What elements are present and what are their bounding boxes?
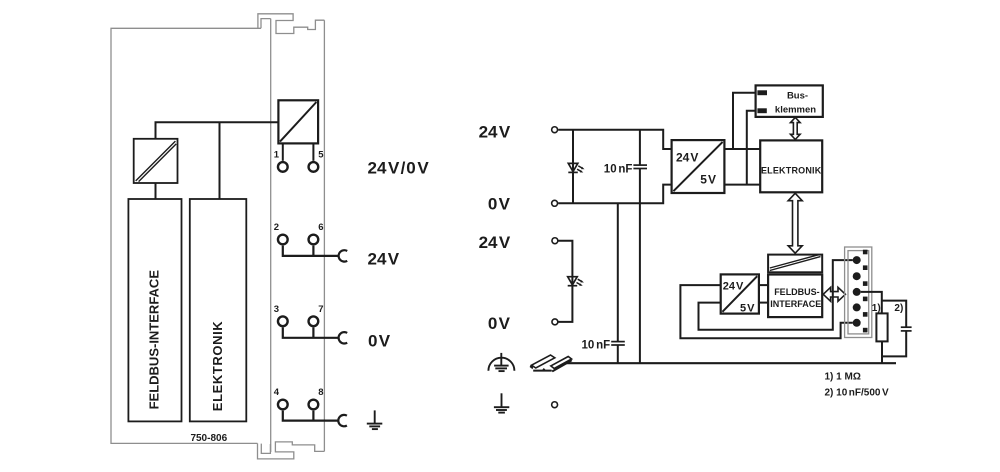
- svg-text:klemmen: klemmen: [775, 104, 816, 115]
- svg-text:1): 1): [872, 303, 881, 314]
- svg-text:24V: 24V: [723, 280, 744, 292]
- terminal circle 24V second: [552, 238, 558, 244]
- wire from isolation box top to bus wire: [156, 122, 279, 139]
- earth bus wire: [566, 362, 896, 364]
- clamp contact symbol 0V: [339, 332, 348, 343]
- capacitor C1 plates: [633, 165, 647, 168]
- module right edge (gray): [323, 20, 325, 451]
- svg-text:5V: 5V: [700, 173, 716, 187]
- terminal 5 stem wire: [312, 143, 314, 160]
- capacitor C2 branch wire upper: [617, 203, 619, 341]
- module bottom profile (gray): [258, 442, 325, 459]
- svg-text:0V: 0V: [368, 331, 391, 350]
- svg-text:7: 7: [318, 304, 323, 315]
- clamp contact symbol earth: [338, 415, 347, 426]
- svg-text:8: 8: [318, 387, 323, 398]
- fieldbus connector shell inner: [848, 251, 869, 334]
- data arrow busklemmen-elektronik: [791, 117, 801, 139]
- LED D1 branch wire: [572, 130, 574, 204]
- svg-text:0V: 0V: [488, 195, 511, 214]
- svg-text:3: 3: [274, 304, 279, 315]
- terminal 2 contact: [278, 235, 288, 245]
- terminal 1 stem wire: [282, 143, 284, 160]
- dc/dc converter 24V/5V fieldbus: [721, 274, 759, 314]
- module channel left edge (gray wire): [270, 19, 272, 452]
- svg-text:FELDBUS-: FELDBUS-: [774, 287, 820, 297]
- svg-text:2) 10nF/500V: 2) 10nF/500V: [825, 388, 889, 399]
- terminal circle 0V second: [552, 319, 558, 325]
- terminal 6 contact: [309, 235, 319, 245]
- fieldbus connector shell outer: [845, 247, 872, 338]
- wire loop inner pin1: [699, 260, 853, 330]
- svg-text:1) 1 MΩ: 1) 1 MΩ: [825, 372, 861, 383]
- capacitor C1 branch wire upper: [639, 130, 641, 165]
- wire pin3 to RC: [861, 292, 907, 327]
- isolation symbol (feldbus): [768, 255, 822, 273]
- svg-text:FELDBUS-INTERFACE: FELDBUS-INTERFACE: [147, 270, 162, 410]
- noiseless earth symbol: [488, 353, 514, 371]
- feldbus-interface box (schematic): [768, 275, 822, 318]
- LED D1: [568, 163, 584, 172]
- busklemmen box: [756, 85, 823, 117]
- wire 24V rail: [558, 130, 671, 149]
- capacitor C2 branch wire lower: [617, 345, 619, 363]
- svg-text:Bus-: Bus-: [787, 90, 808, 101]
- svg-text:0V: 0V: [488, 314, 511, 333]
- module bottom latch notch (gray): [261, 444, 270, 454]
- wire busklemmen supply right: [747, 111, 756, 185]
- resistor lower lead: [882, 331, 906, 363]
- dc/dc converter 24V/5V system: [672, 140, 725, 193]
- terminal 3 contact: [278, 316, 288, 326]
- svg-text:2): 2): [894, 303, 903, 314]
- svg-text:6: 6: [318, 222, 323, 233]
- clamp contact symbol 24V: [339, 250, 348, 261]
- capacitor C3 plates: [901, 327, 912, 331]
- capacitor C1 branch wire lower: [639, 169, 641, 364]
- wire terminals 2/6 to 24V clamp: [283, 246, 339, 256]
- wire from elektronik box top: [219, 122, 221, 199]
- svg-text:2: 2: [274, 222, 279, 233]
- wire converter to elektronik upper: [724, 148, 760, 150]
- svg-text:ELEKTRONIK: ELEKTRONIK: [210, 321, 225, 412]
- svg-text:24V: 24V: [479, 122, 511, 141]
- wire 0V rail: [558, 185, 671, 204]
- feldbus-interface box U1: [128, 199, 181, 421]
- LED D2: [568, 277, 584, 286]
- svg-text:INTERFACE: INTERFACE: [770, 299, 821, 309]
- isolation converter symbol (module): [134, 139, 178, 183]
- terminal 7 contact: [309, 316, 319, 326]
- wire from isolation box bottom to feldbus box: [155, 183, 157, 199]
- svg-text:ELEKTRONIK: ELEKTRONIK: [761, 166, 822, 176]
- LED D2 branch wire: [558, 241, 572, 322]
- connector socket pins: [853, 256, 861, 327]
- terminal 5 contact: [309, 162, 319, 172]
- protective earth symbol bottom: [494, 393, 509, 412]
- wire terminals 4/8 to earth clamp: [283, 411, 339, 421]
- wire busklemmen supply left: [733, 93, 756, 149]
- terminal 1 contact: [278, 162, 288, 172]
- power converter box (module strip): [278, 100, 318, 143]
- DIN rail contact symbol: [530, 355, 573, 372]
- elektronik box U2: [190, 199, 247, 421]
- svg-text:10nF: 10nF: [582, 340, 611, 352]
- svg-text:1: 1: [274, 150, 280, 161]
- svg-text:24V: 24V: [676, 150, 698, 164]
- data arrow elektronik-feldbus isolation: [788, 193, 802, 253]
- module top notch (gray): [261, 19, 271, 29]
- earth symbol (module): [367, 410, 383, 429]
- module body outline (left big rectangle, gray): [111, 28, 261, 443]
- wire terminals 3/7 to 0V clamp: [283, 327, 339, 337]
- module top profile (gray): [258, 14, 325, 34]
- capacitor C2 plates: [611, 342, 625, 345]
- wire loop outer pin5: [680, 285, 852, 338]
- elektronik box (schematic): [760, 140, 822, 192]
- terminal 4 contact: [278, 400, 288, 410]
- resistor R1 1Mohm: [876, 313, 887, 341]
- svg-text:24V: 24V: [479, 233, 511, 252]
- svg-text:24V: 24V: [368, 249, 400, 268]
- wire converter2 to feldbus upper: [759, 284, 768, 286]
- svg-text:5: 5: [318, 150, 324, 161]
- svg-text:10nF: 10nF: [604, 164, 633, 176]
- terminal circle bottom spare: [552, 402, 558, 408]
- wire converter to elektronik lower: [724, 184, 760, 186]
- svg-text:750-806: 750-806: [190, 433, 227, 444]
- data arrow feldbus-connector: [823, 287, 845, 301]
- terminal 8 contact: [309, 400, 319, 410]
- svg-text:5V: 5V: [740, 302, 755, 314]
- terminal circle 0V: [552, 200, 558, 206]
- terminal circle 24V: [552, 127, 558, 133]
- connector side pins: [863, 250, 868, 333]
- svg-text:4: 4: [274, 387, 280, 398]
- wire converter2 to feldbus lower: [759, 302, 768, 304]
- svg-text:24V/0V: 24V/0V: [368, 158, 430, 177]
